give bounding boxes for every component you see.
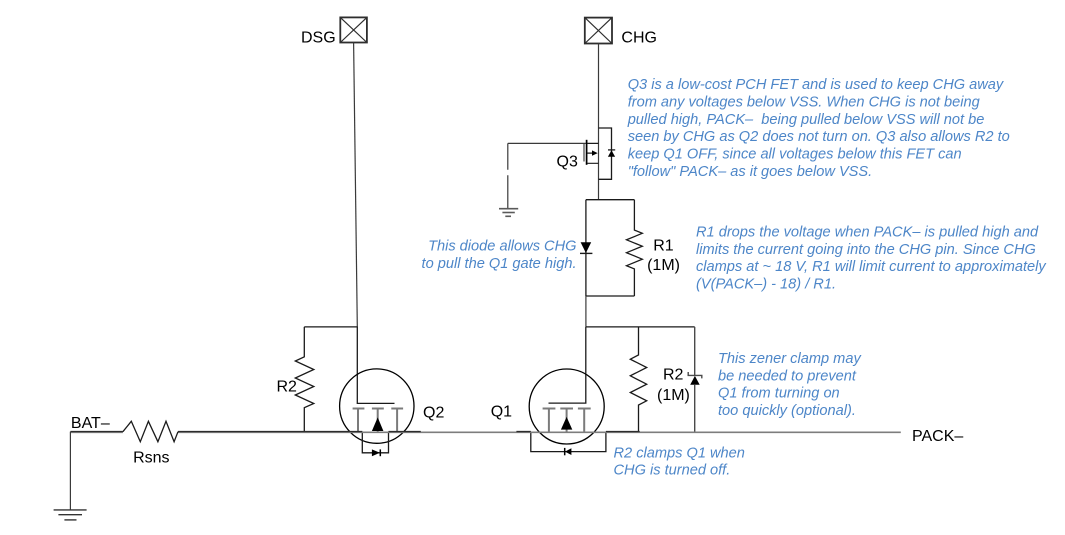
wire Q1 drain to R2 bottom (606, 431, 640, 433)
ground (BAT-) (54, 510, 87, 520)
wire Q2 drain segment (389, 431, 421, 433)
svg-text:keep Q1 OFF, since all voltage: keep Q1 OFF, since all voltages below th… (628, 147, 962, 163)
body diode Q1 (531, 432, 606, 452)
wire Q1 gate lead (549, 327, 586, 403)
annotation: zener note (718, 351, 862, 419)
wire Q3 gate to ground (508, 143, 586, 208)
resistor R1 (627, 200, 643, 296)
svg-text:R1: R1 (653, 238, 674, 255)
svg-text:Q1 from turning on: Q1 from turning on (718, 386, 840, 402)
wire BAT- to ground (69, 432, 71, 510)
transistor Q1 (529, 369, 606, 455)
svg-text:too quickly (optional).: too quickly (optional). (718, 403, 856, 419)
svg-text:clamps at ~ 18 V, R1 will limi: clamps at ~ 18 V, R1 will limit current … (696, 259, 1047, 275)
svg-text:(1M): (1M) (647, 257, 680, 274)
wire Rsns to Q2 source (178, 431, 362, 433)
svg-text:R2: R2 (663, 367, 684, 384)
svg-text:from any voltages below VSS. W: from any voltages below VSS. When CHG is… (628, 94, 980, 110)
svg-text:DSG: DSG (301, 30, 336, 47)
svg-text:PACK–: PACK– (912, 428, 963, 445)
svg-text:(1M): (1M) (657, 387, 690, 404)
svg-text:limits the current going into: limits the current going into the CHG pi… (696, 242, 1036, 258)
svg-text:Rsns: Rsns (133, 450, 169, 467)
body diode Q2 (362, 432, 388, 453)
resistor R2 (1M, gate clamp) (630, 327, 646, 432)
wire DSG node to R2 branch (304, 326, 357, 328)
diode D1 (allows CHG to pull Q1 gate high) (580, 200, 592, 296)
annotation: R1 explanation (696, 224, 1047, 292)
svg-text:R2: R2 (277, 379, 298, 396)
svg-text:seen by CHG as Q2 does not tur: seen by CHG as Q2 does not turn on. Q3 a… (628, 129, 1010, 145)
transistor Q2 (340, 369, 414, 456)
wire BAT- segment (70, 431, 123, 433)
svg-text:(V(PACK–) - 18) / R1.: (V(PACK–) - 18) / R1. (696, 277, 836, 293)
wire Q2 gate lead (357, 327, 394, 404)
svg-text:Q1: Q1 (491, 404, 512, 421)
svg-text:CHG: CHG (621, 30, 657, 47)
svg-text:CHG is turned off.: CHG is turned off. (614, 462, 731, 478)
wire R1 bottom to Q1 gate node (585, 296, 587, 327)
svg-text:BAT–: BAT– (71, 415, 110, 432)
wire R1/D1 bottom (586, 295, 635, 297)
wire node to R2/zener top rail (586, 326, 695, 328)
svg-text:Q3: Q3 (557, 154, 578, 171)
svg-text:Q3 is a low-cost PCH FET and i: Q3 is a low-cost PCH FET and is used to … (628, 77, 1005, 93)
svg-text:R2 clamps Q1 when: R2 clamps Q1 when (614, 445, 745, 461)
terminal DSG (crossed box) (340, 17, 367, 42)
zener diode (optional clamp) (688, 327, 702, 432)
svg-text:be needed to prevent: be needed to prevent (718, 368, 857, 384)
annotation: Q3 explanation (627, 77, 1010, 180)
svg-text:This diode allows CHG: This diode allows CHG (428, 239, 576, 255)
resistor R2 (gate pulldown, left) (295, 327, 314, 432)
svg-text:to pull the Q1 gate high.: to pull the Q1 gate high. (422, 256, 577, 272)
wire CHG down to R1 top (598, 44, 600, 200)
transistor Q3 (PCH FET) (584, 128, 615, 179)
ground (Q3 gate) (499, 209, 518, 217)
wire DSG to Q2 gate (sloped) (354, 43, 358, 327)
annotation: diode note (422, 239, 577, 273)
svg-text:R1 drops the voltage when PACK: R1 drops the voltage when PACK– is pulle… (696, 224, 1039, 240)
svg-text:pulled high, PACK– being pull: pulled high, PACK– being pulled below VS… (627, 112, 985, 128)
wire R1/D1 top (586, 199, 635, 201)
svg-text:"follow" PACK– as it goes belo: "follow" PACK– as it goes below VSS. (628, 164, 873, 180)
svg-text:This zener clamp may: This zener clamp may (718, 351, 862, 367)
annotation: R2 clamp note (614, 445, 745, 478)
main rail BAT- to PACK- (gray) (70, 431, 900, 433)
terminal CHG (crossed box) (585, 18, 612, 44)
wire Q1 source segment (516, 431, 530, 433)
resistor Rsns (123, 421, 178, 441)
svg-text:Q2: Q2 (423, 405, 444, 422)
